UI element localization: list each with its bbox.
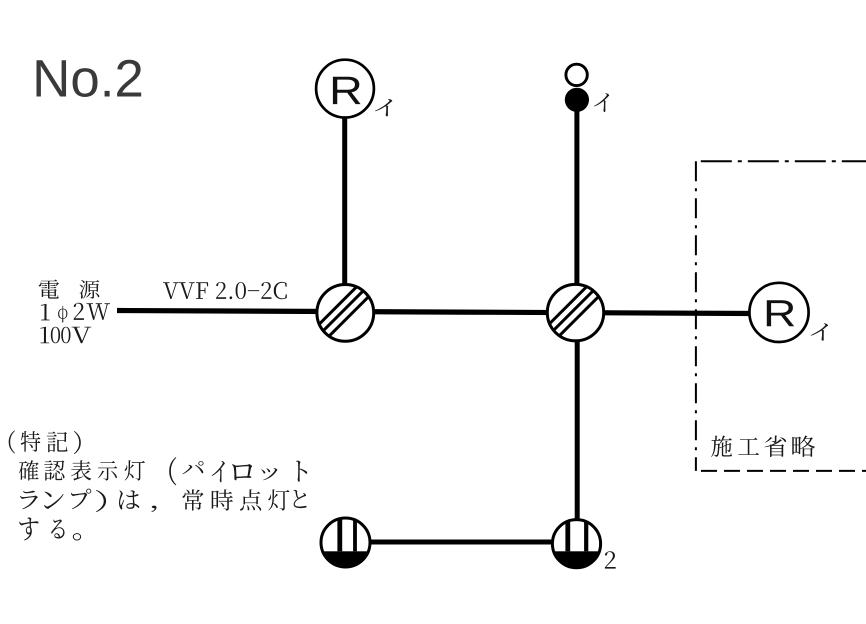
note line: 確認表示灯（パイロット xyxy=(19,457,307,485)
label 施工省略 (construction omitted) xyxy=(711,435,815,457)
note line: する。 xyxy=(19,517,81,540)
wire: bottom horizontal between switches xyxy=(345,540,577,545)
label 1φ2W xyxy=(41,303,110,323)
pilot lamp: filled circle xyxy=(565,88,589,112)
label VVF 2.0-2C cable xyxy=(163,282,287,299)
label イ for lamp R2 xyxy=(811,323,828,340)
wire: vertical from pilot lamp to junction box 2 xyxy=(574,100,579,313)
boundary: construction-omitted dash-dot box, top edge xyxy=(701,160,866,162)
wire: main horizontal power run xyxy=(117,308,753,316)
label イ for pilot lamp xyxy=(594,93,609,112)
wire: vertical from junction box 2 to switch 2 xyxy=(575,313,580,545)
wire: vertical to lamp R1 xyxy=(342,95,347,313)
label イ for lamp R1 xyxy=(375,99,392,116)
lamp receptacle R1 (top) xyxy=(316,60,374,118)
label 2 (double) for switch 2 xyxy=(605,551,616,568)
pilot lamp: open circle xyxy=(566,64,587,85)
lamp receptacle R2 (right) xyxy=(749,283,808,342)
title No.2 xyxy=(36,60,141,97)
label 100V xyxy=(40,327,91,344)
boundary: construction-omitted dash-dot box, bottom edge xyxy=(701,470,866,472)
label 電源 (power source) xyxy=(39,279,100,298)
note (特記) heading xyxy=(9,430,81,454)
note line: ランプ）は，常時点灯と xyxy=(20,489,306,512)
boundary: construction-omitted dash-dot box, left edge xyxy=(695,161,697,471)
